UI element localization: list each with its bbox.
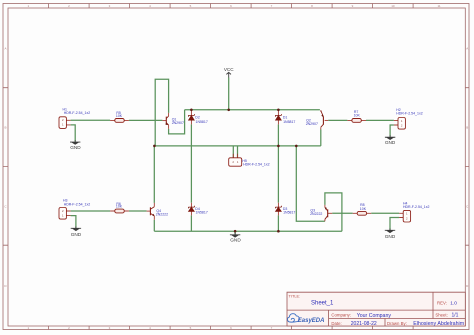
svg-text:Sheet_1: Sheet_1 [311, 301, 334, 307]
svg-text:2: 2 [401, 123, 403, 127]
svg-text:10: 10 [391, 4, 395, 8]
svg-text:1N5817: 1N5817 [283, 210, 295, 214]
svg-text:2: 2 [62, 118, 64, 122]
svg-text:Company:: Company: [331, 312, 351, 317]
svg-text:1: 1 [406, 212, 408, 216]
svg-text:B: B [4, 126, 6, 130]
svg-text:TITLE:: TITLE: [289, 293, 301, 298]
svg-text:1: 1 [62, 213, 64, 217]
svg-text:Your Company: Your Company [357, 313, 392, 319]
svg-text:HDR-F-2.54_1x2: HDR-F-2.54_1x2 [403, 205, 430, 209]
svg-text:2N2907: 2N2907 [172, 121, 184, 125]
svg-text:2N2907: 2N2907 [306, 122, 318, 126]
svg-text:11: 11 [437, 4, 440, 8]
svg-text:Drawn By:: Drawn By: [387, 321, 407, 326]
svg-text:HDR-F-2.54_1x2: HDR-F-2.54_1x2 [64, 202, 91, 206]
svg-text:1: 1 [62, 123, 64, 127]
svg-text:A: A [466, 46, 468, 50]
svg-text:A: A [4, 46, 6, 50]
svg-text:GND: GND [230, 238, 241, 243]
svg-text:2N2222: 2N2222 [310, 212, 322, 216]
svg-text:EasyEDA: EasyEDA [298, 318, 325, 324]
svg-text:10K: 10K [360, 207, 367, 211]
svg-text:REV:: REV: [437, 300, 447, 305]
svg-text:HDR-F-2.54_1x2: HDR-F-2.54_1x2 [243, 162, 270, 166]
svg-text:2: 2 [406, 216, 408, 220]
svg-text:1N5817: 1N5817 [196, 120, 208, 124]
svg-text:10K: 10K [354, 113, 361, 117]
svg-text:Elhosieny Abdelrahim: Elhosieny Abdelrahim [413, 321, 465, 327]
svg-text:Date:: Date: [331, 321, 341, 326]
svg-text:GND: GND [385, 234, 396, 239]
svg-text:Sheet:: Sheet: [435, 312, 447, 317]
svg-text:2N2222: 2N2222 [156, 213, 168, 217]
svg-text:HDR-F-2.54_1x2: HDR-F-2.54_1x2 [396, 111, 423, 115]
svg-text:1.0: 1.0 [450, 300, 457, 306]
svg-text:VCC: VCC [224, 67, 234, 72]
svg-text:1: 1 [401, 119, 403, 123]
svg-text:10K: 10K [116, 205, 123, 209]
svg-text:HDR-F-2.54_1x2: HDR-F-2.54_1x2 [64, 111, 91, 115]
svg-text:GND: GND [385, 140, 396, 145]
svg-text:1N5817: 1N5817 [196, 210, 208, 214]
svg-text:10K: 10K [116, 114, 123, 118]
svg-text:GND: GND [70, 145, 81, 150]
svg-text:B: B [466, 126, 468, 130]
svg-text:GND: GND [71, 232, 82, 237]
svg-text:1N5817: 1N5817 [283, 120, 295, 124]
svg-text:1/1: 1/1 [452, 313, 459, 319]
svg-text:2021-08-22: 2021-08-22 [351, 321, 377, 327]
svg-text:2: 2 [62, 209, 64, 213]
